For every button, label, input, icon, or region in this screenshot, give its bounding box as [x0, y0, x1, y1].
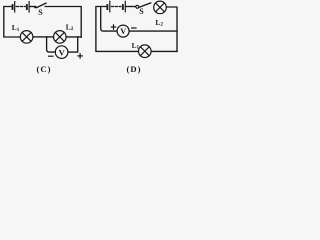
battery BT2 dashed omitted-cells link: [111, 6, 120, 8]
switch S (D) hinge contact: [136, 5, 139, 8]
wire: lamp L1 right to junction node: [33, 36, 47, 38]
lamp L1 (D): [139, 45, 152, 58]
switch S (C) hinge contact: [34, 6, 37, 9]
battery BT1 (cell 2) negative plate: [26, 4, 28, 10]
svg-text:S: S: [38, 8, 43, 17]
wire: D top-left corner, left vertical, bottom rail to lamp L1: [96, 7, 138, 52]
lamp L2 (C): [54, 31, 67, 44]
wire: voltmeter branch drop from top rail (D): [101, 7, 117, 32]
wire: voltmeter to D right vertical: [129, 30, 177, 32]
polarity minus (D voltmeter right): [132, 27, 136, 29]
lamp L2 (D): [154, 1, 167, 14]
svg-text:L1: L1: [12, 23, 20, 33]
svg-text:L2: L2: [155, 18, 163, 28]
wire: switch to top-right corner, C right vertical down to middle rail: [45, 7, 81, 38]
polarity plus (C voltmeter right): [78, 54, 82, 58]
polarity minus (C voltmeter left): [49, 55, 53, 57]
wire: voltmeter branch left drop from junction: [47, 37, 56, 52]
svg-text:L2: L2: [66, 22, 74, 32]
lamp L1 (C): [20, 31, 33, 44]
svg-text:(D): (D): [127, 64, 142, 74]
wire: battery to switch: [30, 6, 34, 8]
voltmeter V (C): [55, 46, 68, 59]
wire: battery to switch (D): [126, 6, 136, 8]
wire: C middle rail, right vertical to lamp L2: [66, 36, 81, 38]
battery BT2 (cell 1) positive plate: [109, 1, 111, 12]
battery BT1 (cell 2) positive plate: [28, 2, 30, 12]
wire: lamp L1 right to bottom-right corner (D): [151, 50, 177, 52]
svg-text:S: S: [139, 7, 144, 16]
battery BT2 (cell 2) negative plate: [122, 4, 124, 10]
battery BT1 dashed omitted-cells link: [16, 6, 25, 8]
battery BT2 (cell 1) negative plate: [106, 4, 108, 10]
switch S (C) blade: [37, 3, 46, 7]
polarity plus (D voltmeter left): [111, 25, 115, 29]
svg-text:(C): (C): [37, 64, 52, 74]
battery BT2 (cell 2) positive plate: [124, 1, 126, 12]
battery BT1 (cell 1) positive plate: [14, 2, 16, 12]
svg-text:V: V: [59, 47, 66, 57]
wire: junction node to lamp L2 left: [47, 36, 54, 38]
svg-text:V: V: [120, 27, 126, 36]
battery BT1 (cell 1) negative plate: [12, 4, 14, 10]
voltmeter V (D): [117, 25, 129, 37]
switch S (D) blade: [139, 3, 151, 7]
wire: lamp L2 to top-right corner, D right vertical down to bottom rail: [167, 7, 178, 51]
wire: voltmeter branch right side up to middle rail: [68, 37, 78, 52]
wire: C left vertical + top-left segment to battery: [4, 7, 20, 38]
